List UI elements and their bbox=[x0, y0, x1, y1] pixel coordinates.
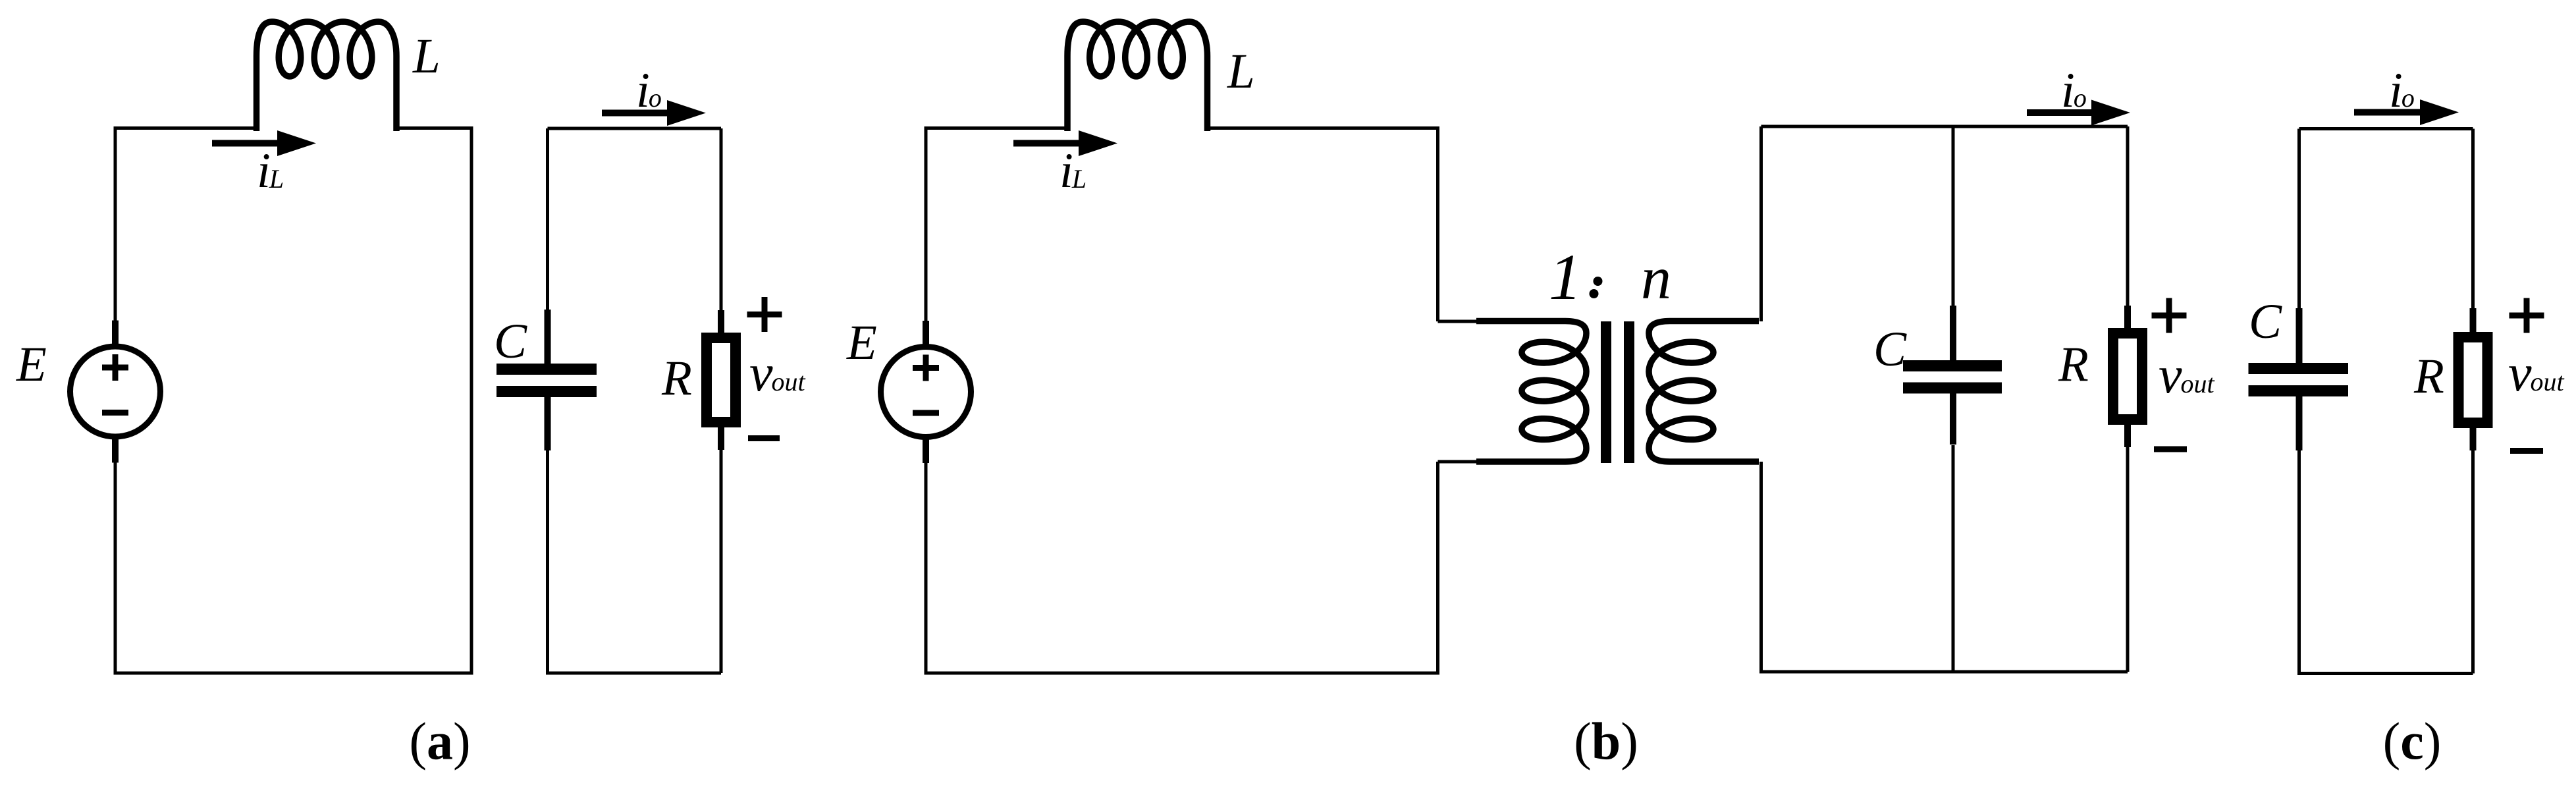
svg-text:1: 1 bbox=[1549, 240, 1582, 313]
svg-text:L: L bbox=[412, 29, 441, 84]
svg-text:R: R bbox=[2413, 349, 2444, 404]
svg-text:(c): (c) bbox=[2383, 713, 2442, 771]
svg-text:R: R bbox=[661, 351, 692, 406]
svg-text:E: E bbox=[846, 315, 877, 370]
svg-text:(a): (a) bbox=[409, 713, 470, 771]
svg-text:C: C bbox=[494, 314, 527, 369]
svg-text:(b): (b) bbox=[1574, 713, 1638, 771]
svg-text:C: C bbox=[2249, 294, 2282, 349]
svg-text:C: C bbox=[1873, 322, 1907, 377]
svg-text:E: E bbox=[16, 337, 47, 392]
svg-text:n: n bbox=[1641, 244, 1671, 312]
svg-text:R: R bbox=[2058, 337, 2089, 392]
svg-text:L: L bbox=[1227, 44, 1255, 99]
